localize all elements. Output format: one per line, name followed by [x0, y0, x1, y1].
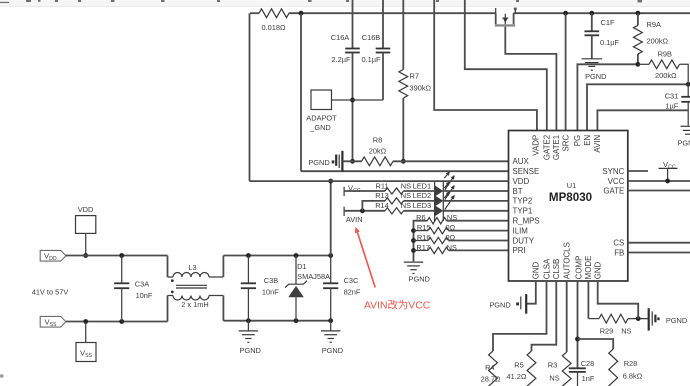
wire GATE net [628, 190, 690, 192]
wire GATE1 from Q1 tap [505, 27, 556, 131]
ground PGND under C3B [247, 321, 249, 331]
LED anode bus [434, 182, 436, 221]
wire VDD rail left [66, 255, 168, 257]
resistor R16 0ohm [411, 238, 416, 243]
wire CS net [628, 242, 690, 244]
svg-text:C3B: C3B [264, 276, 278, 285]
net-tie PGND bottom right [648, 308, 650, 330]
svg-text:GATE: GATE [603, 186, 624, 195]
wire VCC net [628, 180, 690, 182]
wire choke bottom right down [222, 296, 224, 321]
resistor R6 NS [414, 221, 428, 262]
VDD supply box [76, 216, 96, 234]
svg-text:PGND: PGND [585, 72, 606, 81]
wire CLSA to R4 [493, 281, 547, 351]
wire FB net [628, 252, 690, 254]
wire AVIN pin up and right [597, 110, 688, 130]
svg-text:2 x 1mH: 2 x 1mH [181, 300, 209, 309]
wire down to choke top [167, 256, 169, 278]
capacitor C3C [330, 256, 332, 284]
svg-text:PRI: PRI [513, 246, 526, 255]
transistor Q1 sense FET on rail [495, 13, 497, 24]
junction C16A / ADAPOT wire [350, 98, 355, 103]
wire VADP from top [434, 0, 537, 131]
svg-text:FB: FB [614, 248, 624, 257]
svg-text:PGND: PGND [322, 346, 343, 355]
svg-text:1µF: 1µF [665, 102, 678, 111]
svg-text:LED3: LED3 [413, 201, 432, 210]
svg-text:AUTOCLS: AUTOCLS [563, 242, 572, 279]
svg-text:41.2Ω: 41.2Ω [507, 372, 527, 381]
resistor R28 6.8k [609, 349, 618, 386]
wire VDD box down [85, 233, 87, 255]
svg-text:U1: U1 [567, 181, 576, 190]
wire AUX net [343, 160, 362, 162]
svg-text:GATE2: GATE2 [542, 135, 551, 160]
flag AVIN net label [343, 207, 345, 216]
wire SRC from rail [563, 11, 568, 16]
svg-text:0.1µF: 0.1µF [361, 55, 381, 64]
LED cathode bus [442, 182, 444, 221]
ADAPOT_GND box [311, 90, 332, 110]
svg-text:SENSE: SENSE [513, 167, 540, 176]
svg-text:20kΩ: 20kΩ [369, 147, 387, 156]
annotation red arrow [357, 230, 376, 288]
svg-text:C3C: C3C [344, 276, 359, 285]
svg-text:GND: GND [594, 261, 603, 279]
wire vertical x=301 down to SENSE wire [300, 13, 302, 171]
LED LED1 [435, 185, 444, 196]
svg-text:1nF: 1nF [582, 374, 595, 383]
svg-text:28.7Ω: 28.7Ω [481, 374, 501, 383]
svg-text:R9B: R9B [658, 49, 672, 58]
svg-text:NS: NS [621, 327, 631, 336]
wire AVIN to R14 [344, 210, 385, 212]
svg-text:0.018Ω: 0.018Ω [261, 23, 285, 32]
wire COMP down [577, 281, 579, 368]
svg-text:R6: R6 [416, 213, 425, 222]
resistor R3 NS [562, 352, 571, 386]
wire GND pin 1 down-left [527, 281, 536, 304]
op-amp U1 MP8030 [509, 131, 628, 282]
svg-text:R15: R15 [417, 223, 431, 232]
svg-text:390kΩ: 390kΩ [410, 84, 432, 93]
svg-text:6.8kΩ: 6.8kΩ [623, 372, 643, 381]
svg-text:PG: PG [573, 135, 582, 146]
wire tank rail up to VDD net [330, 181, 332, 255]
capacitor C3B [247, 256, 249, 284]
resistor R17 NS [411, 248, 416, 253]
wire VDD net horizontal [250, 180, 509, 182]
svg-text:LED2: LED2 [413, 191, 432, 200]
wire MODE to R29 [587, 281, 589, 319]
svg-text:GND: GND [532, 261, 541, 279]
node VIN top rail [250, 12, 259, 14]
svg-text:C16B: C16B [362, 33, 381, 42]
svg-text:EN: EN [583, 135, 592, 146]
svg-text:CS: CS [613, 239, 624, 248]
ground PGND under resistor bus [404, 261, 423, 263]
capacitor C31 [687, 84, 689, 97]
wire SENSE net horizontal [301, 170, 509, 172]
svg-text:PGND: PGND [678, 138, 690, 147]
svg-text:R11: R11 [375, 181, 388, 190]
svg-text:R7: R7 [410, 71, 419, 80]
junction C16A / AUX wire [350, 159, 355, 164]
wire LED2 cathode to TYP2 pin [443, 200, 508, 202]
resistor R15 0ohm [411, 228, 416, 233]
svg-text:CLSA: CLSA [542, 258, 551, 279]
svg-text:PGND: PGND [240, 346, 261, 355]
capacitor C28 1nF [569, 367, 586, 369]
svg-text:VCC: VCC [348, 184, 361, 195]
svg-text:MODE: MODE [584, 256, 593, 280]
resistor R5 41.2ohm [527, 351, 536, 386]
svg-text:R8: R8 [373, 136, 382, 145]
wire EN pin up and right [587, 84, 688, 130]
svg-text:82nF: 82nF [344, 288, 361, 297]
capacitor C3A [121, 256, 123, 284]
capacitor C1F [589, 11, 594, 16]
svg-text:ADAPOT: ADAPOT [306, 114, 337, 123]
flag Vcc net label [343, 187, 345, 196]
resistor R13 NS [385, 198, 404, 204]
svg-text:R16: R16 [417, 233, 431, 242]
wire ADAPOT to C16B [332, 99, 384, 101]
wire branch to R28 [578, 339, 614, 349]
svg-text:AVIN: AVIN [346, 215, 363, 224]
flag VDD input [40, 250, 66, 261]
resistor R-shunt 0.018ohm [259, 9, 289, 18]
wire LED1 cathode to BT pin [443, 190, 508, 192]
wire LED3 cathode to TYP1 pin [443, 210, 508, 212]
svg-text:PGND: PGND [409, 274, 430, 283]
svg-text:10nF: 10nF [136, 291, 153, 300]
svg-text:TYP1: TYP1 [513, 207, 533, 216]
svg-text:NS: NS [447, 213, 457, 222]
svg-text:VDD: VDD [513, 177, 530, 186]
resistor R29 NS [599, 314, 628, 323]
wire GATE2 from top [465, 0, 547, 131]
LED LED2 [435, 195, 444, 206]
ground PGND top right [681, 125, 690, 127]
svg-text:PGND: PGND [666, 316, 687, 325]
svg-text:L3: L3 [188, 263, 196, 272]
inductor L3 bottom winding [168, 295, 174, 297]
svg-text:NS: NS [401, 181, 411, 190]
svg-text:GATE1: GATE1 [552, 135, 561, 160]
svg-text:SRC: SRC [562, 135, 571, 152]
svg-text:PGND: PGND [308, 158, 329, 167]
svg-text:VADP: VADP [532, 135, 541, 156]
capacitor C16A [352, 0, 354, 49]
svg-text:NS: NS [401, 201, 411, 210]
svg-text:2.2µF: 2.2µF [331, 55, 351, 64]
svg-text:0.1µF: 0.1µF [600, 38, 620, 47]
svg-text:AVIN改为VCC: AVIN改为VCC [364, 299, 431, 312]
svg-text:C16A: C16A [331, 33, 350, 42]
VSS supply box [85, 322, 87, 343]
svg-text:R5: R5 [514, 360, 523, 369]
svg-text:NS: NS [401, 191, 411, 200]
inductor L3 top winding [168, 276, 174, 278]
svg-text:R4: R4 [485, 363, 494, 372]
resistor R9A 200k [636, 11, 641, 16]
wire choke bottom left down [167, 296, 169, 322]
LED LED3 [435, 205, 444, 216]
wire choke top right up to rail [222, 256, 224, 278]
wire Vcc to R11 [344, 190, 385, 192]
svg-text:NS: NS [447, 243, 457, 252]
svg-text:0Ω: 0Ω [446, 233, 456, 242]
svg-text:BT: BT [513, 187, 523, 196]
svg-text:R14: R14 [375, 201, 389, 210]
svg-text:R29: R29 [600, 327, 614, 336]
wire left branch down to VDD net [249, 13, 251, 181]
junction top rail x=301 [299, 11, 304, 16]
svg-text:MP8030: MP8030 [549, 191, 592, 204]
junction R7 / AUX wire [401, 159, 406, 164]
resistor R8 20k [362, 157, 394, 166]
svg-text:C31: C31 [665, 92, 679, 101]
svg-text:VCC: VCC [608, 177, 625, 186]
wire SYNC stub [628, 170, 648, 172]
svg-text:200kΩ: 200kΩ [655, 71, 677, 80]
resistor R7 390k [402, 0, 404, 70]
svg-text:D1: D1 [297, 262, 306, 271]
svg-text:41V to 57V: 41V to 57V [32, 287, 69, 296]
wire CLSB to R5 [532, 281, 557, 351]
svg-text:CLSB: CLSB [552, 259, 561, 280]
diode D1 SMAJ58A zener [295, 256, 297, 285]
resistor R14 NS [385, 208, 404, 214]
svg-text:TYP2: TYP2 [513, 197, 533, 206]
svg-text:R9A: R9A [647, 20, 661, 29]
svg-text:VDD: VDD [78, 205, 94, 214]
svg-text:_GND: _GND [309, 123, 331, 132]
svg-text:200kΩ: 200kΩ [647, 37, 669, 46]
svg-text:ILIM: ILIM [513, 226, 528, 235]
svg-text:LED1: LED1 [413, 181, 432, 190]
svg-text:SYNC: SYNC [602, 167, 624, 176]
svg-text:AUX: AUX [513, 157, 530, 166]
L3 core lines [176, 284, 207, 286]
wire AUTOCLS to R3 [566, 281, 568, 352]
resistor R4 28.7ohm [489, 351, 498, 386]
ground PGND under C1F [582, 58, 603, 60]
svg-text:DUTY: DUTY [513, 236, 535, 245]
node tank bottom rail [223, 320, 330, 322]
wire jog AVIN up to R13 [362, 201, 385, 211]
capacitor C16B [382, 0, 384, 49]
L3 phase dots [171, 279, 174, 282]
top toolbar strip [0, 0, 690, 6]
svg-text:0Ω: 0Ω [446, 223, 456, 232]
wire VSS rail [66, 321, 168, 323]
svg-text:C3A: C3A [135, 280, 149, 289]
svg-text:PGND: PGND [489, 300, 510, 309]
svg-text:10nF: 10nF [262, 288, 279, 297]
resistor R9B 200k [638, 63, 649, 65]
svg-text:AVIN: AVIN [593, 135, 602, 153]
resistor R11 NS [385, 188, 404, 194]
svg-text:R28: R28 [624, 359, 638, 368]
wire PG pin up and right [577, 64, 638, 130]
svg-text:R17: R17 [416, 243, 430, 252]
svg-text:C28: C28 [581, 359, 595, 368]
svg-text:C1F: C1F [601, 18, 615, 27]
flag VSS input [40, 316, 66, 327]
svg-text:SMAJ58A: SMAJ58A [297, 272, 330, 281]
net-tie PGND bottom left [525, 294, 527, 314]
svg-text:NS: NS [549, 374, 559, 383]
wire GND pin 2 down-right [598, 281, 639, 319]
svg-text:R_MPS: R_MPS [513, 217, 540, 226]
svg-text:COMP: COMP [575, 256, 584, 280]
node tank top rail [223, 255, 330, 257]
ground PGND under C3C [330, 321, 332, 331]
svg-text:R3: R3 [548, 360, 557, 369]
Q1 gate stubs above rail [495, 8, 497, 13]
svg-text:R13: R13 [375, 191, 389, 200]
